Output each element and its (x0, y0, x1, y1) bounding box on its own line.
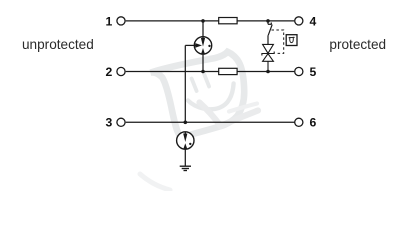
terminal 2 (117, 67, 125, 75)
wire row2 right (237, 71, 294, 73)
thermal disconnect switch (268, 21, 272, 45)
wire from GDT left electrode down to wire3 (184, 45, 186, 122)
terminal 5 (295, 67, 303, 75)
gas discharge tube F1 (3-electrode) (185, 21, 211, 72)
watermark: tilted rounded-square logo with smiley (140, 52, 258, 190)
node on wire2 at GDT (201, 70, 205, 74)
resistor R1 (219, 18, 237, 24)
terminal 1 (117, 17, 125, 25)
svg-text:1: 1 (106, 14, 113, 28)
svg-text:6: 6 (310, 116, 317, 130)
svg-text:5: 5 (310, 65, 317, 79)
wire row3 (126, 121, 295, 123)
theta glyph (290, 37, 294, 43)
node on wire2 at TVS branch (266, 70, 270, 74)
TVS suppressor diode (bidirectional) (262, 44, 274, 71)
svg-text:4: 4 (310, 14, 317, 28)
ground (180, 166, 191, 170)
node on wire1 at TVS branch (266, 19, 270, 23)
terminal 6 (295, 118, 303, 126)
node on wire1 at GDT (201, 19, 205, 23)
dashed thermal link (272, 30, 284, 53)
node on wire3 (184, 121, 188, 125)
wire row2 left (126, 71, 219, 73)
terminal 4 (295, 17, 303, 25)
resistor R2 (219, 68, 237, 74)
gas discharge tube F2 (2-electrode) (177, 132, 194, 166)
svg-text:3: 3 (106, 116, 113, 130)
wire row1 right (237, 20, 294, 22)
svg-text:protected: protected (329, 37, 386, 52)
theta temperature box (286, 35, 297, 46)
svg-text:2: 2 (106, 65, 113, 79)
wire row1 left (126, 20, 219, 22)
svg-text:unprotected: unprotected (22, 37, 94, 52)
terminal 3 (117, 118, 125, 126)
